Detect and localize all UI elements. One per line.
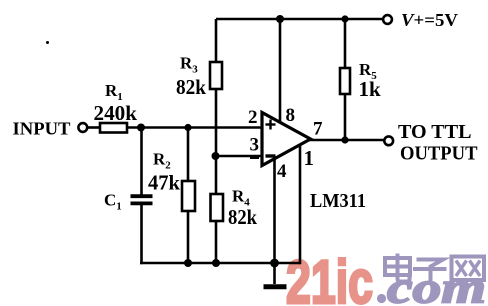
wire bottom rail bbox=[140, 262, 300, 265]
watermark glyph zi bbox=[413, 260, 447, 284]
svg-text:LM311: LM311 bbox=[310, 190, 366, 212]
wire ground stub bbox=[273, 263, 276, 284]
resistor R4 bbox=[211, 194, 224, 221]
watermark glyph dian bbox=[385, 254, 410, 282]
wire output pin7 bbox=[309, 139, 385, 142]
wire pin4 bbox=[273, 156, 276, 263]
wire pin8 bbox=[279, 19, 282, 124]
svg-text:R2: R2 bbox=[153, 150, 171, 172]
node pin8 top rail bbox=[276, 15, 284, 23]
resistor R5 bbox=[340, 68, 350, 94]
node pin3 junction bbox=[212, 152, 220, 160]
wire pin3 bbox=[216, 155, 263, 158]
watermark 21ic bbox=[286, 248, 486, 306]
svg-text:47k: 47k bbox=[148, 171, 180, 195]
wire pin1 bbox=[299, 144, 302, 264]
wire R1 to opamp pin2 bbox=[127, 126, 262, 129]
ground bbox=[264, 284, 287, 289]
svg-text:C1: C1 bbox=[104, 191, 122, 213]
resistor R2 bbox=[182, 181, 195, 211]
wire R3 to R4 vertical bbox=[215, 89, 218, 195]
wire R3 branch upper bbox=[215, 19, 218, 63]
svg-text:R3: R3 bbox=[180, 54, 198, 76]
svg-text:1k: 1k bbox=[359, 77, 382, 101]
node ground junction bbox=[270, 259, 279, 268]
svg-text:2: 2 bbox=[248, 107, 258, 128]
wire R5 lower bbox=[344, 94, 347, 140]
node R5 output bbox=[341, 136, 348, 143]
wire R2 upper bbox=[187, 128, 190, 183]
svg-text:V+=5V: V+=5V bbox=[401, 10, 458, 30]
resistor R3 bbox=[210, 62, 222, 89]
input terminal circle bbox=[78, 123, 87, 132]
node R2 top bbox=[184, 124, 191, 131]
op-amp plus marking bbox=[266, 120, 276, 130]
op-amp U1 LM311 triangle bbox=[262, 113, 311, 166]
wire input to R1 bbox=[87, 126, 101, 129]
svg-text:4: 4 bbox=[277, 161, 287, 182]
wire R2 lower bbox=[187, 211, 190, 263]
capacitor C1 bbox=[131, 196, 153, 203]
V+ terminal circle bbox=[383, 15, 392, 24]
node R4 bottom rail bbox=[212, 259, 220, 267]
svg-text:8: 8 bbox=[286, 105, 296, 126]
wire C1 branch upper bbox=[140, 128, 143, 196]
output terminal circle bbox=[384, 136, 393, 145]
wire C1 lower bbox=[140, 205, 143, 265]
wire pin3 ink blob bbox=[250, 156, 259, 159]
node R2 bottom rail bbox=[184, 259, 192, 267]
resistor R1 bbox=[100, 123, 127, 133]
wire R4 to bottom rail bbox=[215, 221, 218, 263]
node input/R1 junction bbox=[137, 124, 145, 132]
watermark dot of .com bbox=[377, 294, 386, 303]
svg-text:240k: 240k bbox=[94, 101, 138, 125]
svg-text:82k: 82k bbox=[228, 205, 257, 229]
wire top rail bbox=[216, 18, 383, 21]
stray speck bbox=[46, 41, 49, 44]
svg-text:OUTPUT: OUTPUT bbox=[400, 143, 478, 165]
svg-text:3: 3 bbox=[250, 135, 260, 156]
op-amp minus marking bbox=[266, 154, 276, 157]
watermark glyph wang bbox=[452, 257, 485, 281]
svg-text:1: 1 bbox=[304, 146, 315, 170]
svg-text:7: 7 bbox=[313, 119, 323, 140]
svg-text:R1: R1 bbox=[105, 81, 123, 103]
svg-text:INPUT: INPUT bbox=[13, 119, 71, 139]
svg-text:82k: 82k bbox=[176, 75, 206, 99]
svg-text:TO TTL: TO TTL bbox=[398, 121, 472, 143]
node R5 top rail bbox=[341, 15, 348, 22]
wire R5 upper bbox=[344, 19, 347, 69]
